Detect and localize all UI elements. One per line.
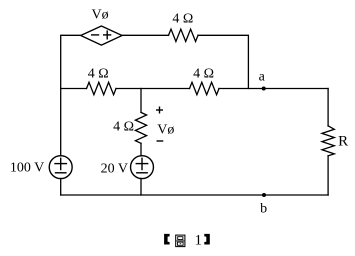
20V source circle <box>131 156 154 179</box>
wire top row left: left rail corner to diamond left tip <box>61 35 81 88</box>
node b junction dot <box>262 193 266 197</box>
wire middle branch: 20V source to bottom row <box>140 179 142 196</box>
wire bottom row <box>61 194 328 196</box>
wire row2 mid: between the two 4ohm resistors <box>116 88 190 90</box>
plus sign inside diamond <box>103 34 111 36</box>
caption left lenticular bracket <box>164 234 170 245</box>
resistor 4ohm middle (vertical zigzag) <box>135 112 146 143</box>
node a junction dot <box>262 87 266 91</box>
wire left rail: 100V source to bottom row <box>60 179 62 196</box>
resistor 4ohm row2 right (horizontal zigzag) <box>190 82 220 94</box>
wire right rail: row2 down to resistor R <box>327 89 329 127</box>
wire top row: diamond right tip to top resistor <box>122 34 168 36</box>
minus bar inside 20V source <box>136 172 148 174</box>
svg-text:4 Ω: 4 Ω <box>88 67 109 82</box>
minus sign inside diamond <box>91 34 99 36</box>
svg-text:20 V: 20 V <box>101 162 128 177</box>
svg-text:a: a <box>259 70 266 85</box>
wire top row: resistor to top-right corner, down to row2 <box>198 35 248 88</box>
wire left rail: row2 junction down to 100V source <box>60 89 62 156</box>
resistor 4ohm row2 left (horizontal zigzag) <box>87 82 117 94</box>
100V source circle <box>49 156 72 179</box>
svg-text:4 Ω: 4 Ω <box>113 120 134 135</box>
svg-text:Vø: Vø <box>157 122 174 137</box>
minus sign of Vphi polarity (middle branch) <box>157 140 164 142</box>
wire middle branch: resistor to 20V source <box>140 143 142 155</box>
dependent source U1 diamond <box>81 26 122 45</box>
wire right rail: resistor R to bottom row <box>327 156 329 195</box>
caption character tu (figure) <box>176 235 185 247</box>
svg-text:4 Ω: 4 Ω <box>193 67 214 82</box>
wire middle branch: row2 down to 4ohm vertical resistor <box>140 89 142 113</box>
svg-text:R: R <box>338 133 348 149</box>
svg-text:b: b <box>260 201 267 216</box>
svg-text:Vø: Vø <box>92 7 109 22</box>
minus bar inside 100V source <box>55 172 67 174</box>
caption figure 1 <box>164 232 210 248</box>
svg-text:100 V: 100 V <box>10 160 44 175</box>
plus sign inside 100V source <box>54 163 67 165</box>
svg-text:1: 1 <box>195 232 203 248</box>
wire row2 left: left rail to 4ohm resistor <box>61 88 87 90</box>
svg-text:4 Ω: 4 Ω <box>172 12 193 27</box>
resistor 4ohm top (horizontal zigzag) <box>169 29 199 41</box>
resistor R (vertical zigzag) <box>322 126 334 156</box>
plus sign inside 20V source <box>136 163 149 165</box>
caption right lenticular bracket <box>204 234 210 245</box>
plus sign of Vphi polarity (middle branch) <box>156 109 163 111</box>
wire row2 right: resistor to right rail through node a <box>219 88 328 90</box>
